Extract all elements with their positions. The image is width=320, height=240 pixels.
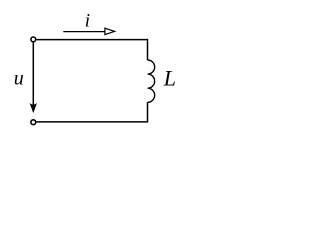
wire right-bottom: [147, 102, 149, 122]
arrowhead of u (points down): [30, 103, 38, 113]
svg-text:L: L: [163, 65, 176, 90]
svg-text:i: i: [85, 11, 90, 32]
inductor L: [148, 60, 155, 102]
current arrow i (line): [63, 31, 105, 33]
current arrowhead (open triangle): [105, 28, 115, 34]
terminal (top-left): [31, 37, 36, 42]
wire bottom: [37, 121, 149, 123]
svg-text:u: u: [14, 68, 24, 90]
terminal (bottom-left): [31, 120, 36, 125]
wire right-top: [147, 39, 149, 60]
wire top: [37, 39, 148, 41]
wire left (u reference shaft): [32, 43, 34, 111]
